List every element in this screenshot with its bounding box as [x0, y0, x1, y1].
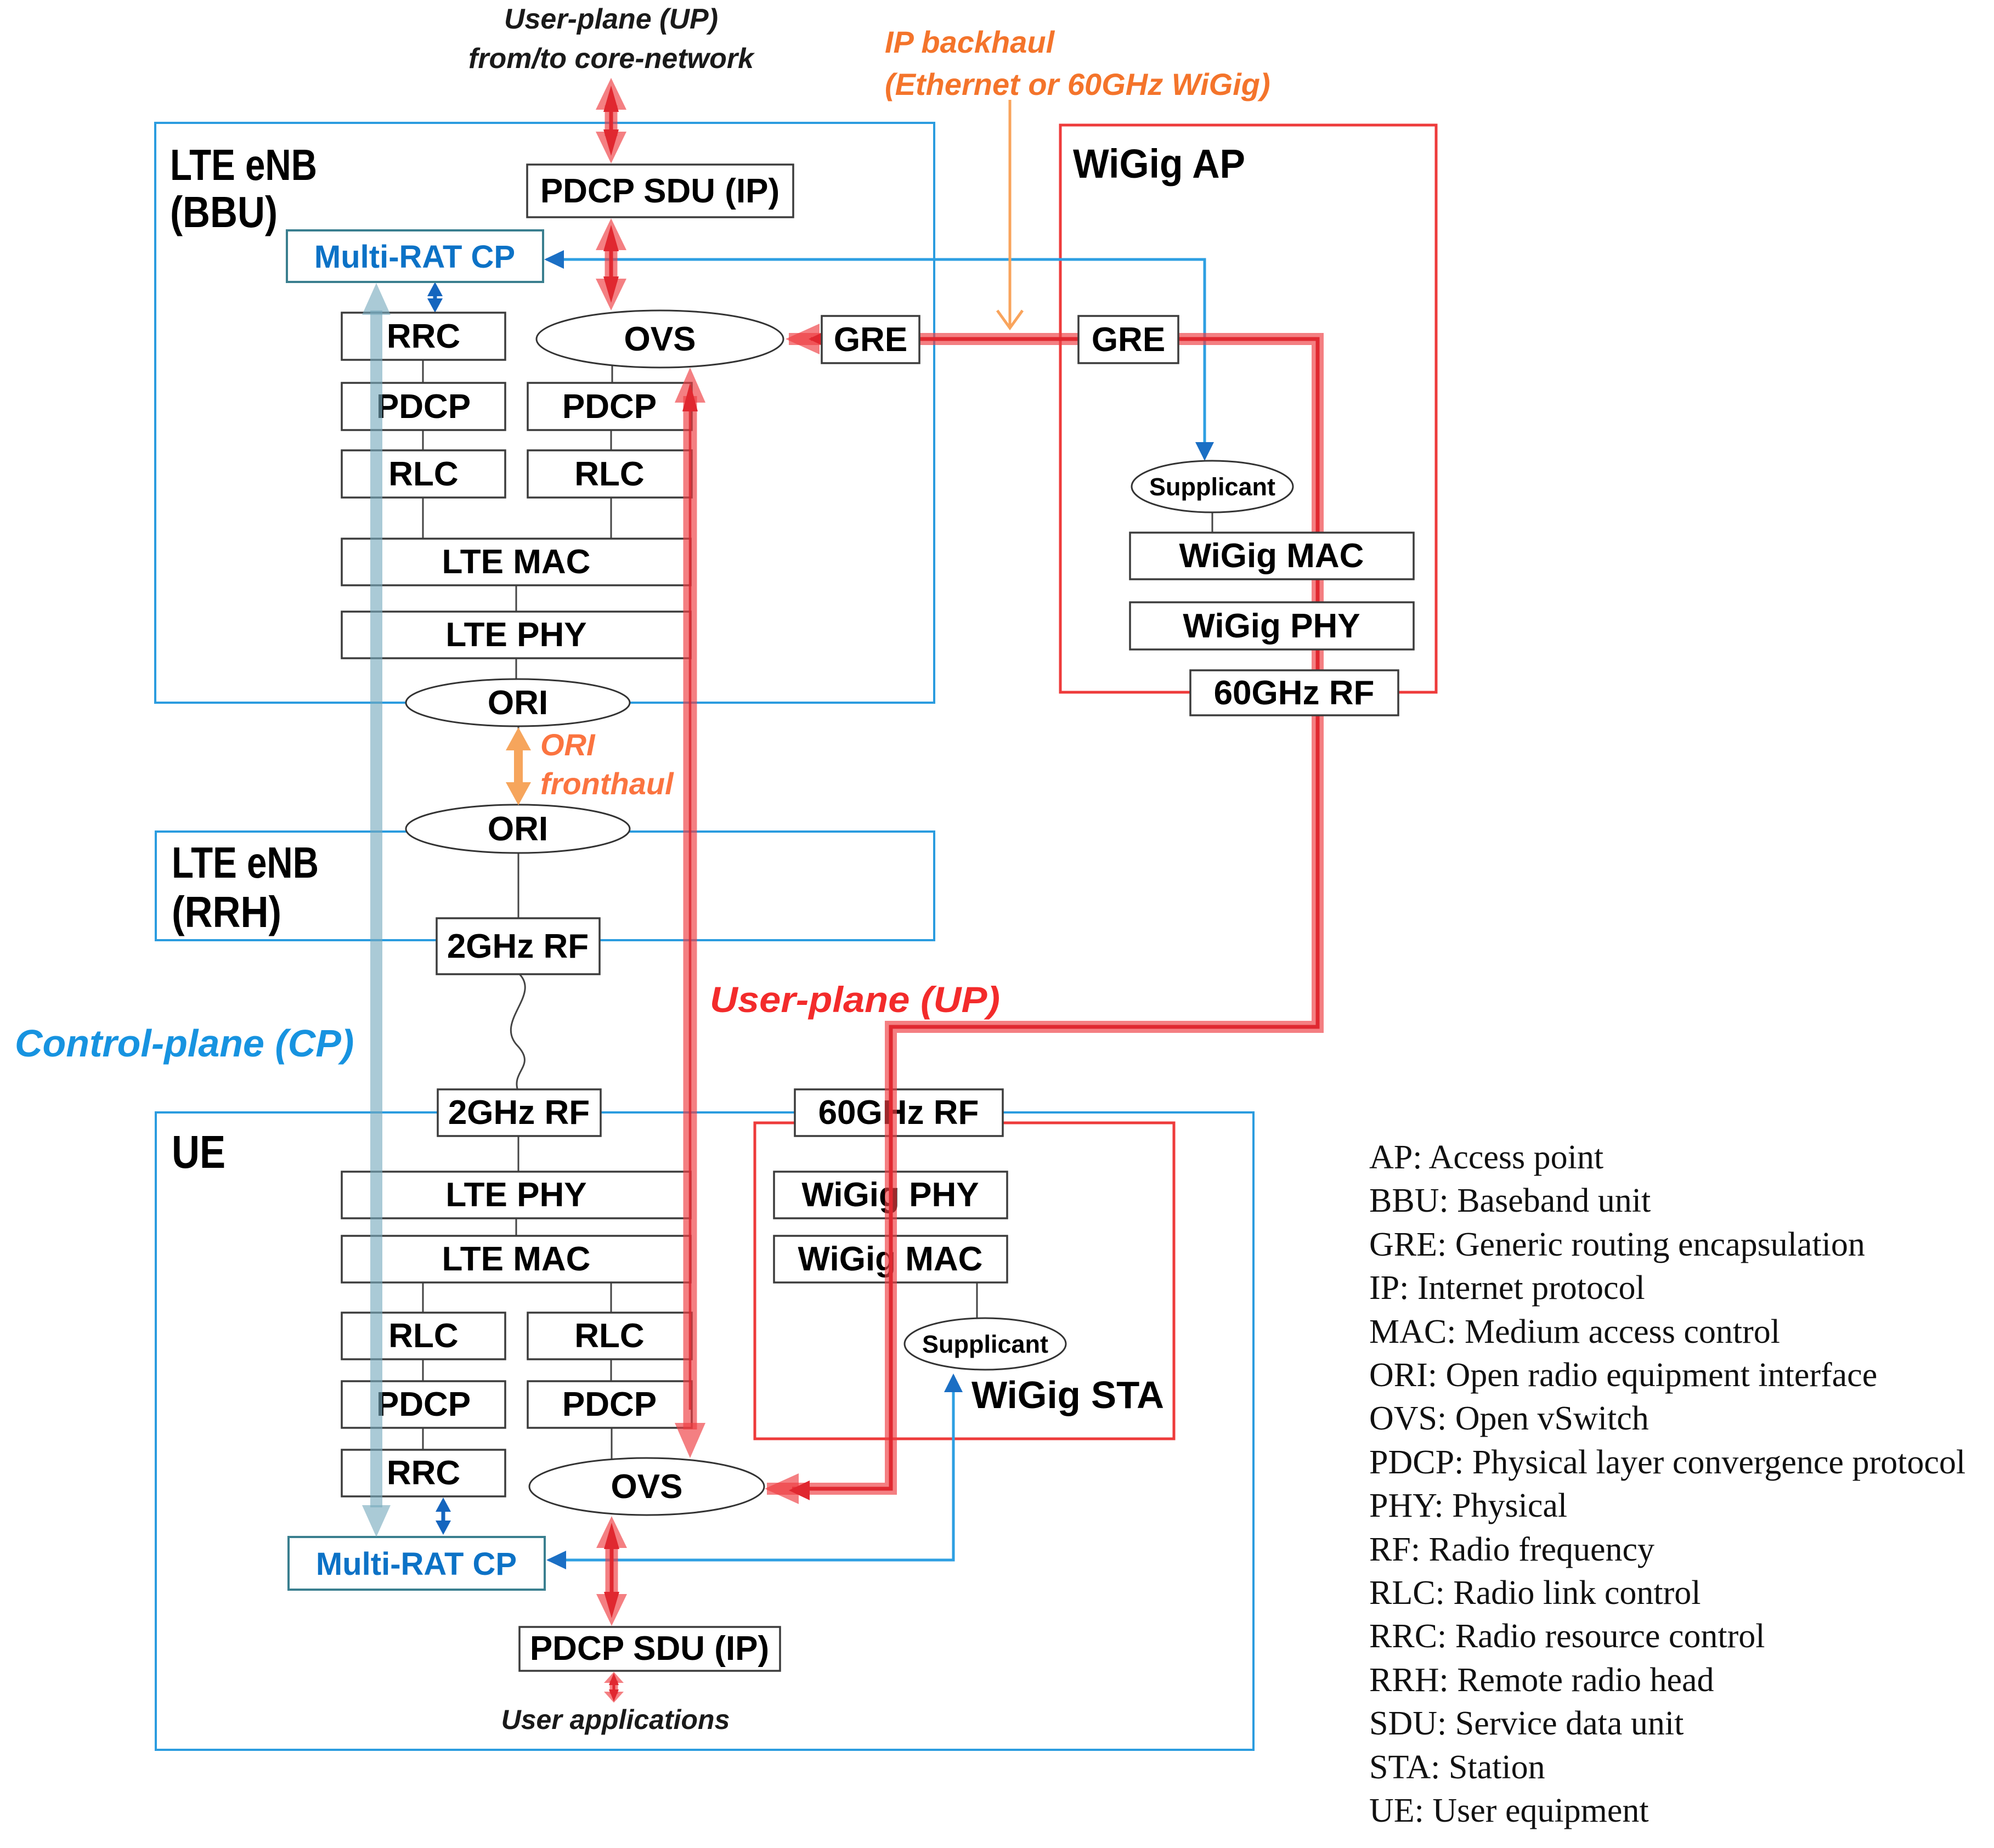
svg-text:PDCP: PDCP: [376, 388, 471, 426]
ellipse ORI BBU: [406, 679, 630, 726]
svg-text:PDCP SDU (IP): PDCP SDU (IP): [530, 1630, 769, 1668]
wire connector RLC-LTEMAC left BBU: [422, 497, 424, 540]
box PDCP SDU (IP) BBU: [527, 165, 793, 217]
wire connector OVS-PDCP BBU: [612, 357, 613, 384]
wire blue double arrow RRC-MultiRAT BBU: [427, 282, 443, 313]
svg-text:Multi-RAT CP: Multi-RAT CP: [316, 1546, 517, 1582]
wire User-plane arrow PDCP SDU to OVS BBU: [596, 218, 626, 310]
box WiGig MAC UE: [774, 1236, 1007, 1282]
box 2GHz RF RRH: [437, 918, 600, 974]
label User-plane from/to core-network: [468, 3, 755, 75]
wire connector PDCP-RLC left BBU: [422, 429, 424, 451]
wire connector Supplicant-WiGigMAC AP: [1212, 510, 1213, 534]
svg-text:PDCP SDU (IP): PDCP SDU (IP): [540, 172, 779, 210]
svg-text:RRC: RRC: [387, 1454, 460, 1492]
svg-text:Multi-RAT CP: Multi-RAT CP: [314, 239, 515, 275]
container LTE eNB (RRH): [156, 832, 934, 940]
svg-text:UE: User equipment: UE: User equipment: [1369, 1792, 1649, 1829]
wire connector PDCP-RRC UE: [422, 1427, 424, 1451]
wire User-plane arrow core-network to PDCP SDU BBU: [596, 78, 626, 163]
box RLC left BBU: [342, 450, 505, 498]
svg-text:ORI: ORI: [488, 810, 548, 848]
svg-text:fronthaul: fronthaul: [540, 766, 674, 801]
svg-text:GRE: Generic routing encapsula: GRE: Generic routing encapsulation: [1369, 1226, 1865, 1263]
svg-text:User applications: User applications: [501, 1704, 730, 1735]
svg-text:60GHz RF: 60GHz RF: [818, 1094, 979, 1132]
container WiGig STA: [755, 1123, 1174, 1439]
box RLC left UE: [342, 1313, 505, 1359]
svg-text:LTE eNB: LTE eNB: [170, 140, 317, 189]
svg-text:WiGig AP: WiGig AP: [1073, 141, 1245, 187]
svg-text:Supplicant: Supplicant: [922, 1330, 1048, 1358]
svg-text:PDCP: PDCP: [376, 1386, 471, 1423]
svg-text:BBU: Baseband unit: BBU: Baseband unit: [1369, 1182, 1651, 1219]
ellipse Supplicant AP: [1132, 461, 1293, 512]
svg-text:User-plane (UP): User-plane (UP): [504, 3, 718, 35]
box PDCP right BBU: [528, 383, 692, 430]
svg-text:OVS: Open vSwitch: OVS: Open vSwitch: [1369, 1400, 1649, 1437]
wire connector ORI-ORI fronthaul: [518, 719, 519, 812]
wire User-plane red path GRE backhaul loop: [765, 324, 1318, 1504]
svg-text:AP: Access point: AP: Access point: [1369, 1139, 1603, 1176]
svg-text:LTE PHY: LTE PHY: [445, 1176, 586, 1214]
wire connector Supplicant-WiGigMAC UE: [976, 1282, 978, 1322]
svg-text:RLC: Radio link control: RLC: Radio link control: [1369, 1574, 1701, 1612]
svg-text:WiGig PHY: WiGig PHY: [1183, 607, 1360, 645]
label container LTE eNB (BBU): [170, 140, 317, 236]
wire CP blue polyline UE Multi-RAT CP to UE Supplicant: [546, 1374, 963, 1569]
svg-text:RRC: Radio resource control: RRC: Radio resource control: [1369, 1618, 1765, 1655]
svg-text:PDCP: Physical layer convergen: PDCP: Physical layer convergence protoco…: [1369, 1444, 1965, 1481]
wire blue double arrow RRC-MultiRAT UE: [436, 1497, 451, 1535]
svg-text:IP backhaul: IP backhaul: [885, 25, 1055, 59]
box GRE left: [822, 316, 919, 363]
wire connector RLC-LTEMAC right BBU: [611, 497, 612, 540]
box WiGig PHY UE: [774, 1172, 1007, 1218]
label IP backhaul: [885, 25, 1270, 101]
wire connector RLC-PDCP right UE: [611, 1359, 612, 1382]
wire wavy radio link 2GHzRF-2GHzRF: [511, 974, 525, 1090]
wire connector 2GHzRF-LTEPHY UE: [518, 1135, 519, 1173]
wire Control-plane teal band BBU MultiRAT to UE MultiRAT: [362, 283, 391, 1537]
label container LTE eNB (RRH): [172, 838, 319, 936]
svg-text:LTE PHY: LTE PHY: [445, 616, 586, 654]
container UE: [156, 1112, 1253, 1750]
wire connector ORI-2GHzRF RRH: [518, 845, 519, 919]
svg-text:Control-plane (CP): Control-plane (CP): [15, 1022, 354, 1065]
svg-text:User-plane (UP): User-plane (UP): [710, 979, 1000, 1020]
box RLC right UE: [528, 1313, 692, 1359]
wire connector LTEMAC-RLC left UE: [422, 1282, 424, 1314]
box LTE PHY UE: [342, 1172, 691, 1218]
svg-text:RLC: RLC: [388, 455, 458, 493]
box RLC right BBU: [528, 450, 692, 498]
svg-text:2GHz RF: 2GHz RF: [448, 1094, 590, 1132]
svg-text:UE: UE: [172, 1126, 225, 1178]
svg-text:LTE MAC: LTE MAC: [442, 1240, 591, 1278]
box LTE MAC BBU: [342, 539, 691, 585]
box PDCP SDU (IP) UE: [519, 1627, 780, 1671]
wire connector LTEPHY-ORI BBU: [516, 658, 517, 686]
box PDCP left BBU: [342, 383, 505, 430]
wire connector RLC-PDCP left UE: [422, 1359, 424, 1382]
box GRE right: [1078, 316, 1178, 363]
svg-text:RF: Radio frequency: RF: Radio frequency: [1369, 1531, 1654, 1568]
wire connector LTEPHY-LTEMAC UE: [516, 1218, 517, 1237]
container WiGig AP: [1060, 125, 1436, 692]
svg-text:SDU: Service data unit: SDU: Service data unit: [1369, 1705, 1684, 1742]
svg-text:GRE: GRE: [834, 321, 907, 359]
svg-text:RLC: RLC: [574, 1317, 644, 1355]
wire connector PDCP-RLC right BBU: [611, 429, 612, 451]
svg-text:RLC: RLC: [388, 1317, 458, 1355]
svg-text:GRE: GRE: [1092, 321, 1165, 359]
wire connector PDCP-OVS UE: [611, 1427, 613, 1462]
svg-text:LTE MAC: LTE MAC: [442, 543, 591, 581]
ellipse OVS UE: [529, 1458, 764, 1515]
svg-text:OVS: OVS: [611, 1468, 683, 1506]
box PDCP left UE: [342, 1381, 505, 1428]
svg-text:RLC: RLC: [574, 455, 644, 493]
svg-text:PDCP: PDCP: [562, 1386, 657, 1423]
wire connector RRC-PDCP BBU: [422, 360, 424, 384]
box Multi-RAT CP BBU: [287, 230, 543, 282]
svg-text:RRC: RRC: [387, 318, 460, 355]
wire User-plane arrow OVS UE to PDCP SDU UE: [596, 1516, 627, 1626]
svg-text:IP: Internet protocol: IP: Internet protocol: [1369, 1269, 1645, 1307]
ellipse ORI RRH: [406, 805, 630, 853]
box WiGig MAC AP: [1130, 533, 1414, 579]
container LTE eNB (BBU): [155, 123, 934, 703]
svg-text:OVS: OVS: [624, 320, 696, 358]
svg-text:(Ethernet or 60GHz WiGig): (Ethernet or 60GHz WiGig): [885, 67, 1270, 101]
box LTE MAC UE: [342, 1236, 691, 1282]
svg-text:ORI: ORI: [540, 727, 596, 762]
ellipse OVS BBU: [536, 310, 783, 368]
box 60GHz RF UE: [795, 1089, 1003, 1136]
svg-text:(BBU): (BBU): [170, 188, 278, 236]
svg-text:from/to core-network: from/to core-network: [468, 43, 755, 75]
label ORI fronthaul: [540, 727, 674, 801]
box WiGig PHY AP: [1130, 602, 1414, 649]
svg-text:WiGig STA: WiGig STA: [971, 1374, 1164, 1416]
wire orange IP backhaul arrow: [997, 100, 1023, 328]
ellipse Supplicant UE: [905, 1318, 1066, 1370]
svg-text:LTE eNB: LTE eNB: [172, 838, 319, 887]
svg-text:PHY: Physical: PHY: Physical: [1369, 1487, 1567, 1524]
wire CP blue polyline BBU Multi-RAT CP to AP Supplicant: [544, 250, 1214, 461]
svg-text:RRH: Remote radio head: RRH: Remote radio head: [1369, 1661, 1714, 1699]
wire connector LTEMAC-RLC right UE: [611, 1282, 612, 1314]
svg-text:Supplicant: Supplicant: [1149, 473, 1275, 501]
box LTE PHY BBU: [342, 612, 691, 658]
svg-text:ORI: ORI: [488, 684, 548, 722]
svg-text:WiGig MAC: WiGig MAC: [1179, 537, 1364, 575]
wire connector LTEMAC-LTEPHY BBU: [516, 585, 517, 613]
box 60GHz RF AP: [1190, 670, 1398, 715]
wire User-plane pink band OVS BBU to OVS UE: [675, 368, 705, 1458]
box RRC BBU: [342, 313, 505, 360]
wire User-plane arrow PDCP SDU UE to user applications: [604, 1672, 624, 1703]
legend abbreviation list: [1369, 1139, 1965, 1829]
box Multi-RAT CP UE: [289, 1537, 545, 1590]
svg-text:60GHz RF: 60GHz RF: [1214, 674, 1375, 712]
svg-text:2GHz RF: 2GHz RF: [447, 928, 589, 965]
svg-text:PDCP: PDCP: [562, 388, 657, 426]
svg-text:STA: Station: STA: Station: [1369, 1749, 1545, 1786]
box RRC UE: [342, 1450, 505, 1496]
box PDCP right UE: [528, 1381, 692, 1428]
wire orange ORI fronthaul double arrow: [506, 727, 531, 805]
svg-text:MAC: Medium access control: MAC: Medium access control: [1369, 1313, 1780, 1350]
svg-text:(RRH): (RRH): [172, 888, 281, 936]
svg-text:ORI: Open radio equipment inte: ORI: Open radio equipment interface: [1369, 1357, 1877, 1394]
box 2GHz RF UE: [438, 1089, 601, 1136]
